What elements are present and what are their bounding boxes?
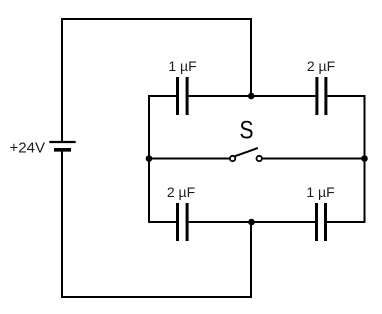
svg-text:2 µF: 2 µF bbox=[167, 184, 195, 200]
node junction top center bbox=[248, 93, 255, 100]
switch S left contact bbox=[230, 156, 235, 161]
switch S right contact bbox=[257, 156, 262, 161]
capacitor C2 plates (top-right) bbox=[317, 77, 326, 115]
svg-text:S: S bbox=[239, 116, 253, 144]
wire top loop: battery + to center column bbox=[62, 19, 251, 142]
capacitor C3 plates (bottom-left) bbox=[178, 203, 188, 241]
wire middle row left segment bbox=[149, 158, 230, 160]
svg-text:+24V: +24V bbox=[10, 140, 45, 157]
battery V1 +24V bbox=[49, 142, 75, 150]
wire right bus bbox=[364, 95, 366, 223]
wire bottom row right segment bbox=[327, 221, 365, 223]
svg-text:1 µF: 1 µF bbox=[168, 58, 196, 74]
wire top row left segment bbox=[149, 95, 176, 97]
wire left bus bbox=[148, 95, 150, 223]
capacitor C4 plates (bottom-right) bbox=[317, 203, 326, 241]
switch S blade bbox=[235, 148, 258, 156]
node junction bottom center bbox=[248, 219, 255, 226]
svg-text:2 µF: 2 µF bbox=[307, 58, 335, 74]
wire top row middle segment bbox=[189, 95, 316, 97]
svg-text:1 µF: 1 µF bbox=[306, 184, 334, 200]
node junction middle right bbox=[361, 155, 368, 162]
wire bottom row left segment bbox=[149, 221, 176, 223]
wire bottom row middle segment bbox=[189, 221, 316, 223]
node junction middle left bbox=[146, 155, 153, 162]
wire bottom loop: battery - to center column bbox=[62, 151, 251, 298]
wire top row right segment bbox=[327, 95, 364, 97]
wire middle row right segment bbox=[262, 158, 364, 160]
capacitor C1 plates (top-left) bbox=[178, 77, 188, 115]
